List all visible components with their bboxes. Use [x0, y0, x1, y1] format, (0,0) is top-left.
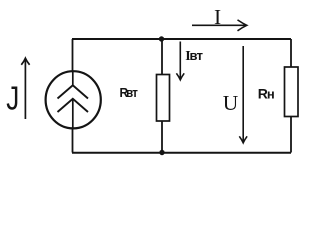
- svg-text:I: I: [214, 5, 221, 29]
- svg-text:Iвт: Iвт: [185, 48, 202, 64]
- svg-text:U: U: [223, 91, 239, 115]
- svg-text:J: J: [6, 80, 19, 117]
- svg-text:Rвт: Rвт: [120, 85, 138, 100]
- svg-text:Rн: Rн: [258, 86, 275, 102]
